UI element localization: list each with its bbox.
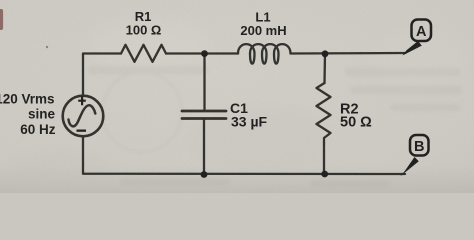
junction node R1/L1/C1	[201, 50, 208, 57]
wire top-left from source to R1	[83, 54, 121, 97]
junction node C1 bottom	[201, 171, 208, 178]
junction node R2 bottom	[321, 171, 328, 178]
terminal A lead wedge	[403, 41, 422, 56]
wire C1 branch lower	[203, 119, 205, 175]
resistor R1	[121, 45, 166, 62]
wire C1 branch upper	[203, 54, 205, 112]
wire bottom rail	[83, 137, 405, 175]
resistor R2	[317, 83, 331, 143]
ac source sine wave	[69, 105, 96, 126]
faint page show-through artifacts (decorative)	[88, 66, 462, 187]
wire R2 branch lower	[323, 143, 325, 174]
wire R1 to L1	[166, 52, 238, 54]
junction node L1/R2/A	[322, 50, 329, 57]
terminal B lead wedge	[400, 157, 419, 177]
capacitor C1 plates	[182, 111, 226, 119]
wire R2 branch upper	[323, 54, 326, 84]
ac source minus sign	[77, 130, 87, 132]
terminal B	[410, 135, 429, 156]
ac source V1 circle	[63, 96, 104, 137]
wire L1 to terminal A lead	[291, 52, 406, 55]
ac source plus sign	[78, 96, 86, 105]
terminal A	[412, 20, 432, 42]
inductor L1	[238, 44, 291, 64]
